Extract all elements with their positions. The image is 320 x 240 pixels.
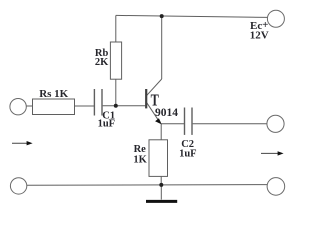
svg-text:1K: 1K (133, 155, 147, 166)
svg-text:1uF: 1uF (98, 119, 116, 130)
svg-text:Re: Re (134, 144, 147, 155)
svg-text:1uF: 1uF (179, 148, 197, 159)
svg-text:2K: 2K (95, 57, 109, 68)
svg-text:12V: 12V (250, 30, 269, 42)
svg-text:Rs 1K: Rs 1K (39, 88, 68, 100)
svg-text:9014: 9014 (155, 107, 178, 119)
